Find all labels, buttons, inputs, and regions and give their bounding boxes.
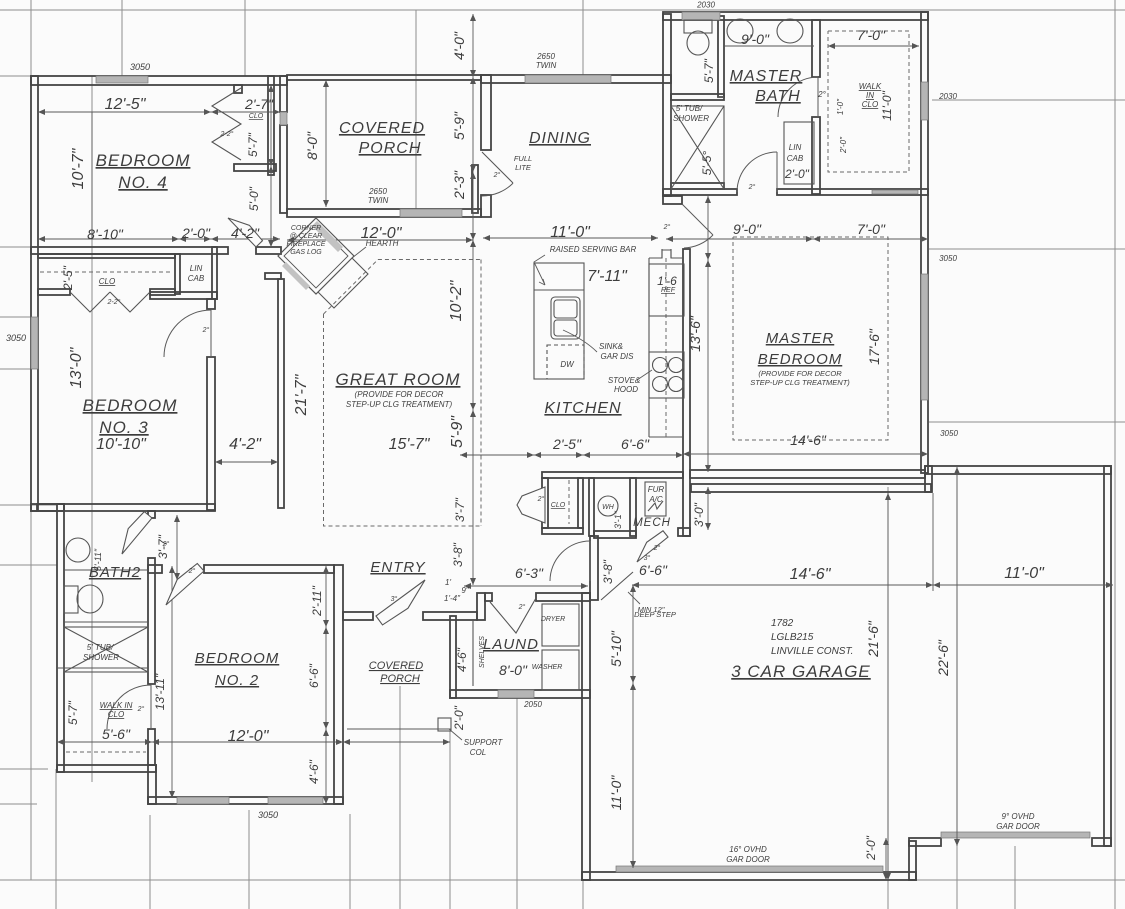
svg-text:11'-0": 11'-0" bbox=[1004, 565, 1045, 582]
dim 3-0 v bbox=[707, 487, 709, 530]
wall mech south stub bbox=[678, 528, 690, 536]
dim 8-0 porch bbox=[325, 80, 327, 207]
svg-text:CLO: CLO bbox=[862, 100, 878, 109]
door bath2 bbox=[122, 512, 152, 554]
great room clg top bbox=[324, 260, 482, 315]
svg-text:3°: 3° bbox=[391, 595, 398, 603]
svg-text:LIN: LIN bbox=[789, 143, 802, 152]
svg-text:2°: 2° bbox=[663, 223, 671, 231]
ext line bed4 bbox=[91, 112, 93, 239]
svg-text:1'-6: 1'-6 bbox=[657, 274, 677, 288]
door bed3 closet L bbox=[70, 292, 110, 312]
sink basin2 bbox=[554, 320, 577, 336]
dim 4-0 v bbox=[472, 14, 474, 77]
svg-text:BATH: BATH bbox=[755, 88, 800, 105]
REF box bbox=[649, 264, 684, 316]
svg-text:14'-6": 14'-6" bbox=[790, 432, 827, 448]
svg-text:3'-7": 3'-7" bbox=[156, 534, 170, 559]
walkin shelves bbox=[828, 31, 909, 172]
svg-text:7'-0": 7'-0" bbox=[857, 221, 886, 237]
dim 5-0 v bbox=[270, 166, 272, 247]
window 3050 bed4 north bbox=[96, 76, 148, 83]
WH circle bbox=[598, 496, 618, 516]
wall closet/lincab divider bbox=[175, 254, 180, 294]
svg-text:1'-0": 1'-0" bbox=[836, 98, 845, 115]
svg-text:GAR DOOR: GAR DOOR bbox=[996, 822, 1040, 831]
wall bedroom2 sw jog bbox=[148, 765, 156, 804]
dim 8-10 bbox=[38, 238, 179, 240]
svg-text:GAS LOG: GAS LOG bbox=[290, 249, 322, 256]
svg-text:2°: 2° bbox=[493, 171, 501, 179]
door bedroom3 bbox=[164, 310, 211, 357]
svg-text:2'-5": 2'-5" bbox=[552, 436, 582, 452]
svg-text:7'-11": 7'-11" bbox=[587, 268, 628, 285]
burner4 bbox=[669, 377, 684, 392]
wall master north bbox=[663, 12, 928, 20]
svg-text:2°: 2° bbox=[653, 544, 661, 552]
dim 10-2 v bbox=[472, 240, 474, 410]
wall master bath south e bbox=[777, 189, 928, 195]
svg-text:FIREPLACE: FIREPLACE bbox=[287, 241, 326, 248]
svg-text:3'-8": 3'-8" bbox=[451, 542, 465, 567]
svg-text:14'-6": 14'-6" bbox=[790, 566, 832, 583]
dim 11-0 v bbox=[632, 683, 634, 868]
svg-text:CLO: CLO bbox=[249, 113, 264, 120]
bar leader bbox=[534, 255, 545, 285]
wall porch west a bbox=[280, 76, 287, 112]
master bed door arc bbox=[684, 235, 713, 248]
svg-text:(PROVIDE FOR DECOR: (PROVIDE FOR DECOR bbox=[758, 369, 842, 378]
dim 6-6b bbox=[583, 454, 683, 456]
wall master south bbox=[690, 470, 925, 478]
svg-text:5'-9": 5'-9" bbox=[449, 415, 466, 448]
svg-text:5' TUB/: 5' TUB/ bbox=[676, 104, 703, 113]
door bedroom4 bbox=[228, 218, 263, 247]
svg-text:4'-6": 4'-6" bbox=[455, 647, 469, 672]
toilet bowl 2 bbox=[77, 585, 103, 613]
master clg bbox=[733, 237, 888, 440]
svg-text:2'-7": 2'-7" bbox=[244, 96, 274, 112]
dim 5-7 v bbox=[270, 85, 272, 166]
wall tub south bbox=[671, 183, 724, 189]
island bar line bbox=[534, 289, 584, 291]
wall walkin west bbox=[812, 117, 820, 194]
tub2 bbox=[64, 627, 148, 672]
svg-text:MASTER: MASTER bbox=[730, 68, 803, 85]
svg-text:5'-11": 5'-11" bbox=[93, 548, 103, 571]
wall bed4 closet south bbox=[234, 164, 276, 171]
wall bedroom2 east bbox=[334, 565, 343, 804]
wall bath/walkin divider top bbox=[812, 20, 820, 77]
dim 2-7 bbox=[211, 111, 280, 113]
wall below lincab bbox=[150, 292, 217, 299]
svg-text:2°: 2° bbox=[817, 90, 826, 99]
dim 22-6 v bbox=[956, 467, 958, 846]
tub2 X bbox=[64, 627, 148, 672]
svg-text:9° OVHD: 9° OVHD bbox=[1002, 812, 1035, 821]
support col box bbox=[438, 718, 451, 731]
svg-text:WALK: WALK bbox=[859, 82, 882, 91]
svg-text:2030: 2030 bbox=[696, 1, 715, 10]
svg-text:3'-7": 3'-7" bbox=[453, 497, 467, 522]
ref nook bbox=[662, 249, 671, 258]
svg-text:22'-6": 22'-6" bbox=[935, 639, 951, 677]
window 3050 bedroom2 a bbox=[177, 797, 229, 804]
window 3050 master bedroom bbox=[921, 274, 928, 400]
sink M2 bbox=[777, 19, 803, 43]
wall bed3 closet south e bbox=[150, 289, 175, 295]
svg-text:3050: 3050 bbox=[939, 254, 957, 263]
svg-text:MASTER: MASTER bbox=[766, 330, 835, 347]
svg-text:17'-6": 17'-6" bbox=[866, 328, 882, 365]
wall porch top edge bbox=[287, 75, 481, 80]
wall kitchen south bbox=[542, 472, 683, 478]
svg-text:9'-0": 9'-0" bbox=[733, 221, 762, 237]
svg-text:LINVILLE CONST.: LINVILLE CONST. bbox=[771, 646, 853, 657]
wall dining north bbox=[481, 75, 671, 83]
great room clg left-bottom bbox=[324, 314, 482, 526]
burner1 bbox=[653, 358, 668, 373]
wall garage front left-bay bbox=[582, 872, 916, 880]
support col leader bbox=[449, 729, 462, 740]
dim porch b bbox=[343, 741, 450, 743]
wall bed4 closet east bbox=[268, 76, 274, 175]
wall garage right-bay north bbox=[925, 466, 1111, 474]
svg-text:11'-0": 11'-0" bbox=[550, 224, 591, 241]
svg-text:COVERED: COVERED bbox=[369, 660, 423, 672]
svg-text:9": 9" bbox=[461, 586, 469, 595]
svg-text:2-2°: 2-2° bbox=[220, 130, 234, 138]
svg-text:16° OVHD: 16° OVHD bbox=[729, 845, 767, 854]
garage door 9ft bbox=[941, 832, 1090, 838]
svg-text:2050: 2050 bbox=[523, 700, 542, 709]
svg-text:13'-11": 13'-11" bbox=[153, 673, 167, 710]
svg-text:CAB: CAB bbox=[188, 274, 205, 283]
wall bedroom3 east bbox=[207, 357, 215, 510]
great room clg right bbox=[480, 260, 482, 527]
wall bedroom3 east stub bbox=[207, 299, 215, 309]
laundry shelf line bbox=[472, 620, 474, 686]
wall bedroom3 south bbox=[37, 504, 215, 511]
counter centerline bbox=[665, 258, 667, 437]
bath2 sink bbox=[66, 538, 90, 562]
svg-text:3050: 3050 bbox=[258, 810, 278, 820]
dim 5-6 bbox=[57, 741, 152, 743]
dim 4-2 top bbox=[211, 238, 280, 240]
svg-text:21'-6": 21'-6" bbox=[865, 620, 881, 658]
svg-text:2'-0": 2'-0" bbox=[784, 167, 810, 181]
svg-text:GREAT ROOM: GREAT ROOM bbox=[336, 370, 461, 389]
svg-text:NO. 4: NO. 4 bbox=[118, 173, 167, 192]
tub2 top bbox=[64, 621, 148, 623]
svg-text:BEDROOM: BEDROOM bbox=[195, 650, 280, 667]
toilet bowl M bbox=[687, 31, 709, 55]
hearth bbox=[318, 258, 368, 308]
svg-text:ENTRY: ENTRY bbox=[370, 559, 425, 576]
window 3050 bed3 west bbox=[31, 317, 38, 369]
door dining full lite arc bbox=[482, 183, 513, 196]
wall clo closet west bbox=[542, 478, 548, 528]
window 2050 laundry bbox=[498, 690, 534, 698]
burner3 bbox=[653, 377, 668, 392]
wall bath2 east a bbox=[148, 511, 155, 518]
wall porch east / laundry west bbox=[450, 616, 456, 698]
dim 2-3 v bbox=[472, 172, 474, 240]
svg-text:3'-1": 3'-1" bbox=[613, 510, 623, 529]
wall garage front right-bay bbox=[909, 838, 941, 846]
svg-text:SUPPORT: SUPPORT bbox=[464, 738, 504, 747]
svg-text:4'-6": 4'-6" bbox=[307, 759, 321, 784]
svg-text:DRYER: DRYER bbox=[541, 616, 565, 623]
hearth leader bbox=[352, 247, 366, 258]
svg-text:WALK IN: WALK IN bbox=[100, 701, 133, 710]
svg-text:6'-6": 6'-6" bbox=[639, 562, 668, 578]
svg-text:15'-7": 15'-7" bbox=[389, 436, 431, 453]
svg-text:STEP-UP CLG TREATMENT): STEP-UP CLG TREATMENT) bbox=[346, 400, 453, 409]
wall laundry south bbox=[450, 690, 590, 698]
dim 5-10 v bbox=[632, 585, 634, 683]
window 2030 walkin bbox=[921, 82, 928, 120]
door laundry V bbox=[490, 598, 536, 633]
wall bath2 east c bbox=[148, 729, 155, 765]
dim 11-0 h bbox=[933, 584, 1113, 586]
ext line garage right bbox=[932, 493, 934, 591]
svg-text:11'-0": 11'-0" bbox=[608, 775, 624, 811]
svg-text:STOVE&: STOVE& bbox=[608, 376, 640, 385]
wall porch east stub bbox=[472, 165, 478, 213]
wall bedroom2 north w bbox=[148, 565, 162, 573]
svg-text:2°: 2° bbox=[518, 603, 526, 611]
dim master 9 bbox=[666, 238, 813, 240]
lin cab box bbox=[784, 122, 814, 184]
svg-text:2030: 2030 bbox=[938, 92, 957, 101]
svg-text:GAR DIS: GAR DIS bbox=[601, 352, 635, 361]
svg-text:CAB: CAB bbox=[787, 154, 804, 163]
wall wh closet west bbox=[589, 478, 594, 536]
svg-text:2'-3": 2'-3" bbox=[451, 170, 467, 200]
walkin rod bbox=[66, 751, 146, 753]
svg-text:5'-9": 5'-9" bbox=[451, 111, 467, 140]
svg-text:5'-7": 5'-7" bbox=[66, 700, 80, 725]
svg-text:1'-4": 1'-4" bbox=[444, 594, 461, 603]
svg-text:5'-7": 5'-7" bbox=[246, 132, 260, 157]
svg-text:CLO: CLO bbox=[108, 710, 124, 719]
svg-text:LAUND: LAUND bbox=[483, 636, 539, 653]
wall garage front step bbox=[909, 841, 916, 880]
svg-text:2'-5": 2'-5" bbox=[61, 265, 75, 291]
dim 12-0 bed2 bbox=[152, 741, 343, 743]
dim 2-5b bbox=[534, 454, 583, 456]
svg-text:BEDROOM: BEDROOM bbox=[96, 151, 191, 170]
wall bedroom2 north e bbox=[204, 565, 334, 573]
svg-text:2°: 2° bbox=[137, 705, 145, 713]
wall vestibule west bbox=[590, 536, 598, 600]
svg-text:2°: 2° bbox=[202, 326, 210, 334]
svg-text:HOOD: HOOD bbox=[614, 385, 638, 394]
svg-text:SHOWER: SHOWER bbox=[83, 653, 119, 662]
counter edge bbox=[648, 258, 650, 437]
svg-text:4'-2": 4'-2" bbox=[229, 436, 262, 453]
dim 12-0 great bbox=[287, 239, 473, 241]
svg-text:6'-6": 6'-6" bbox=[621, 436, 650, 452]
wall garage west bbox=[582, 593, 590, 880]
wall bedroom3 south jog bbox=[31, 504, 64, 511]
island bbox=[534, 263, 584, 379]
wall toilet/tub divider bbox=[671, 94, 724, 100]
tub X bbox=[671, 106, 724, 189]
wall master suite west bbox=[663, 14, 671, 196]
dim 6-3 bbox=[464, 585, 588, 587]
step diagonal bbox=[601, 572, 633, 600]
svg-text:DINING: DINING bbox=[529, 130, 591, 147]
svg-text:2'-0": 2'-0" bbox=[864, 835, 878, 861]
svg-text:2650: 2650 bbox=[536, 52, 555, 61]
door bedroom2 bbox=[166, 564, 204, 606]
svg-text:2°: 2° bbox=[748, 183, 756, 191]
wall lincab east bbox=[212, 247, 217, 299]
svg-text:3'-8": 3'-8" bbox=[601, 559, 615, 584]
wall fireplace back bbox=[265, 273, 281, 279]
counter top nook bbox=[649, 250, 684, 258]
door walkin2 bbox=[107, 685, 151, 729]
bed3 closet rod bbox=[40, 271, 173, 273]
svg-text:A/C: A/C bbox=[648, 495, 663, 504]
wall dining west lower bbox=[481, 195, 491, 217]
svg-text:HEARTH: HEARTH bbox=[366, 239, 399, 248]
dim ref v bbox=[707, 196, 709, 260]
walkin top wall bbox=[57, 667, 148, 669]
svg-text:2650: 2650 bbox=[368, 187, 387, 196]
door clo pentagon bbox=[517, 487, 545, 523]
svg-text:IN: IN bbox=[866, 91, 874, 100]
svg-text:8'-0": 8'-0" bbox=[304, 131, 320, 160]
svg-text:COL: COL bbox=[470, 748, 486, 757]
svg-text:5'-6": 5'-6" bbox=[102, 726, 131, 742]
dim 2-0 v bbox=[885, 838, 887, 880]
window 2650twin dining bbox=[525, 75, 611, 83]
svg-text:FUR: FUR bbox=[648, 485, 665, 494]
dim 21-6 v bbox=[887, 493, 889, 880]
wall bedroom4 north bbox=[31, 76, 287, 85]
svg-text:TWIN: TWIN bbox=[536, 61, 557, 70]
wall entry south e bbox=[423, 612, 477, 620]
ac zig bbox=[648, 501, 663, 511]
svg-text:3°: 3° bbox=[644, 554, 651, 562]
svg-text:TWIN: TWIN bbox=[368, 196, 389, 205]
svg-text:3050: 3050 bbox=[6, 333, 26, 343]
svg-text:2'-0": 2'-0" bbox=[839, 136, 848, 154]
stove box bbox=[649, 352, 684, 398]
dim 3-7 hall v bbox=[176, 515, 178, 580]
svg-text:WASHER: WASHER bbox=[532, 664, 563, 671]
svg-text:BEDROOM: BEDROOM bbox=[758, 351, 843, 368]
svg-text:NO. 3: NO. 3 bbox=[99, 418, 148, 437]
wall bath2 east b bbox=[148, 558, 155, 684]
wall jog entry-laundry bbox=[477, 593, 485, 620]
svg-text:5'-10": 5'-10" bbox=[608, 630, 624, 667]
svg-text:LIN: LIN bbox=[190, 264, 203, 273]
svg-text:RAISED SERVING BAR: RAISED SERVING BAR bbox=[550, 245, 637, 254]
svg-text:4'-2": 4'-2" bbox=[231, 225, 260, 241]
svg-text:13'-6": 13'-6" bbox=[687, 315, 703, 352]
stub bbox=[718, 96, 724, 98]
window porch west bbox=[280, 112, 287, 125]
door bed3 closet R bbox=[110, 292, 150, 312]
dim 5-9b v bbox=[472, 410, 474, 585]
step leader bbox=[628, 592, 640, 604]
svg-text:12'-5": 12'-5" bbox=[105, 96, 147, 113]
door garage entry bbox=[637, 531, 668, 562]
svg-text:3'-0": 3'-0" bbox=[692, 502, 706, 527]
svg-text:BEDROOM: BEDROOM bbox=[83, 396, 178, 415]
sink leader bbox=[563, 330, 597, 352]
svg-text:12'-0": 12'-0" bbox=[228, 728, 270, 745]
dim 12-5 bbox=[38, 111, 211, 113]
svg-text:REF: REF bbox=[661, 287, 676, 294]
wall hall south bbox=[594, 531, 636, 538]
svg-text:@ CLEAR: @ CLEAR bbox=[290, 233, 322, 240]
wall garage east bbox=[1104, 466, 1111, 846]
vanity edge bbox=[724, 45, 814, 47]
svg-text:3050: 3050 bbox=[130, 62, 150, 72]
door hall bbox=[550, 541, 590, 581]
dim 14-6 h bbox=[632, 584, 933, 586]
wall great room north (porch) bbox=[287, 209, 481, 217]
dim 5-9 v bbox=[472, 77, 474, 172]
dim 14-6 master bbox=[683, 453, 928, 455]
svg-text:5' TUB/: 5' TUB/ bbox=[87, 643, 114, 652]
wall master east bbox=[921, 12, 928, 473]
svg-text:7'-0": 7'-0" bbox=[857, 27, 886, 43]
stub bed4 closet top bbox=[234, 85, 242, 93]
dim 4-2 hall bbox=[215, 461, 278, 463]
toilet tank M bbox=[684, 20, 712, 33]
svg-text:SHELVES: SHELVES bbox=[479, 636, 486, 668]
window 2650twin greatroom-porch bbox=[400, 209, 462, 217]
svg-text:CLO: CLO bbox=[99, 277, 115, 286]
burner2 bbox=[669, 358, 684, 373]
wall west bed4/bed3 bbox=[31, 76, 38, 511]
fireplace assembly bbox=[278, 218, 354, 294]
svg-text:LGLB215: LGLB215 bbox=[771, 632, 814, 643]
svg-text:10'-10": 10'-10" bbox=[96, 436, 147, 453]
svg-text:MECH: MECH bbox=[633, 517, 671, 529]
svg-text:PORCH: PORCH bbox=[359, 140, 422, 157]
wall walkin south bbox=[57, 765, 156, 772]
svg-text:1782: 1782 bbox=[771, 618, 794, 629]
svg-text:(PROVIDE FOR DECOR: (PROVIDE FOR DECOR bbox=[355, 390, 444, 399]
svg-text:2'-0": 2'-0" bbox=[452, 705, 466, 731]
sink basin1 bbox=[554, 300, 577, 318]
wall bath2/walkin west bbox=[57, 504, 64, 772]
svg-text:21'-7": 21'-7" bbox=[293, 373, 310, 416]
svg-text:1': 1' bbox=[445, 578, 451, 587]
svg-text:CORNER: CORNER bbox=[291, 225, 321, 232]
wall kitchen east / mech west upper bbox=[683, 249, 690, 536]
svg-text:PORCH: PORCH bbox=[380, 673, 420, 685]
wall clo closet east bbox=[578, 478, 583, 528]
svg-text:9'-0": 9'-0" bbox=[741, 31, 770, 47]
counter bottom bbox=[649, 436, 683, 438]
wall laundry north stub bbox=[485, 593, 492, 601]
svg-text:CLO: CLO bbox=[551, 502, 566, 509]
window 3050 bedroom2 b bbox=[268, 797, 323, 804]
svg-text:8'-10": 8'-10" bbox=[87, 226, 124, 242]
porch edge bbox=[347, 728, 451, 730]
window 2030 master bath bbox=[682, 12, 720, 20]
svg-text:WH: WH bbox=[602, 504, 615, 511]
wall bedroom2 south bbox=[148, 797, 343, 804]
